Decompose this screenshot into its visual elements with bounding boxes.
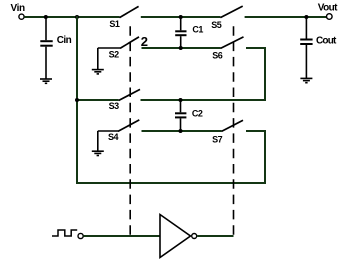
wire inverter output: [197, 235, 233, 237]
wire clock to inverter: [83, 235, 161, 237]
svg-text:S7: S7: [212, 135, 223, 145]
svg-text:S2: S2: [109, 50, 120, 60]
wire Cout stem upper: [305, 17, 307, 39]
svg-text:Vout: Vout: [318, 3, 338, 14]
wire S4 ground arm vertical: [97, 131, 99, 151]
wire S7 right post: [246, 130, 266, 132]
svg-text:Cin: Cin: [57, 35, 72, 46]
wire rail3 S3 to S6 drop: [141, 99, 267, 101]
wire S2 ground arm vertical: [97, 48, 99, 69]
capacitor Cin: [40, 41, 52, 46]
wire C1 stem upper: [180, 17, 182, 30]
wire node2 rail S2 to S6: [142, 47, 221, 49]
inverter U1: [160, 215, 197, 258]
ground below Cin: [40, 79, 52, 83]
capacitor Cout: [300, 40, 312, 45]
node junction Cin tap: [44, 15, 48, 19]
wire top rail S5 to Vout: [245, 16, 327, 18]
svg-text:S5: S5: [211, 20, 222, 30]
dashed control line phase 1: [129, 26, 131, 235]
terminal Vin: [19, 14, 24, 19]
wire Cin stem lower: [45, 47, 47, 79]
wire S6 drop to rail3: [264, 47, 266, 101]
wire S3 left post: [76, 99, 119, 101]
switch S7: [222, 120, 244, 131]
capacitor C1: [175, 31, 186, 35]
switch S2: [120, 37, 139, 49]
switch S6: [221, 37, 244, 49]
terminal Vout: [327, 14, 333, 20]
wire C1 stem lower: [180, 36, 182, 48]
node junction S3 bus tap: [75, 98, 79, 102]
wire rail4 S4 to S7: [142, 130, 222, 132]
wire S4 ground arm horizontal: [98, 130, 118, 132]
clock waveform symbol: [52, 230, 77, 236]
ground below S2: [92, 70, 104, 74]
svg-text:S1: S1: [109, 19, 120, 29]
wire Cout stem lower: [305, 45, 307, 78]
node junction C1 top: [179, 15, 183, 19]
terminal clock input: [78, 233, 83, 238]
svg-text:C2: C2: [192, 109, 203, 119]
node junction C2 top: [179, 98, 183, 102]
capacitor C2: [175, 113, 186, 117]
svg-text:S6: S6: [212, 51, 223, 61]
node junction left bus tap: [75, 15, 79, 19]
node junction C2 bottom: [179, 129, 183, 133]
node junction C1 bottom: [179, 46, 183, 50]
wire bottom bus: [76, 182, 266, 184]
svg-text:Vin: Vin: [11, 3, 25, 14]
wire S7 drop to bottom bus: [264, 130, 266, 184]
wire S6 right post: [246, 47, 266, 49]
wire Cin stem upper: [45, 17, 47, 40]
svg-text:C1: C1: [192, 24, 203, 34]
wire top rail S1 to S5: [141, 16, 221, 18]
wire top rail Vin to S1: [24, 16, 119, 18]
svg-text:2: 2: [141, 34, 148, 49]
node junction Cout tap: [304, 15, 308, 19]
switch S3: [119, 89, 140, 100]
switch S4: [118, 120, 139, 131]
switch S1: [120, 6, 139, 17]
svg-text:S4: S4: [108, 132, 119, 142]
wire left bus vertical: [76, 16, 78, 184]
svg-text:S3: S3: [109, 101, 120, 111]
wire C2 stem lower: [180, 118, 182, 131]
ground below S4: [92, 151, 104, 155]
switch S5: [220, 6, 242, 18]
dashed control line phase 2: [233, 26, 235, 235]
ground below Cout: [300, 78, 312, 82]
svg-text:Cout: Cout: [316, 35, 337, 46]
wire S2 ground arm horizontal: [98, 47, 120, 49]
wire C2 stem upper: [180, 100, 182, 112]
